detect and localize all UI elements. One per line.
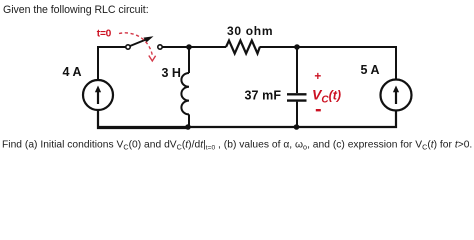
svg-text:t=0: t=0 xyxy=(97,29,112,40)
inductor L1 wire top xyxy=(188,46,190,73)
current source I1 4A circle xyxy=(83,80,113,110)
svg-text:30 ohm: 30 ohm xyxy=(227,24,273,38)
wire: bottom left corner vertical xyxy=(98,126,189,128)
svg-text:5 A: 5 A xyxy=(361,63,380,77)
wire: bottom right section xyxy=(189,110,397,127)
svg-text:37 mF: 37 mF xyxy=(245,89,282,103)
switch motion arrowhead (red open V) xyxy=(149,56,156,62)
current source I2 5A circle xyxy=(381,80,412,111)
resistor R1 30 ohm zigzag xyxy=(226,41,260,54)
node junction dot (bottom of inductor) xyxy=(185,124,191,130)
inductor L1 coil xyxy=(181,73,189,114)
wire: resistor right to top-right corner and down xyxy=(260,47,397,80)
current source I2 arrow xyxy=(395,90,397,104)
wire: left vertical top (source to top wire) xyxy=(97,46,99,80)
label - polarity xyxy=(316,109,321,111)
svg-text:Find (a) Initial conditions VC: Find (a) Initial conditions VC(0) and dV… xyxy=(2,140,472,152)
capacitor C1 bottom plate xyxy=(287,99,307,101)
capacitor C1 wire top xyxy=(296,46,298,93)
switch left contact xyxy=(126,45,130,49)
svg-text:3 H: 3 H xyxy=(162,66,181,80)
wire: left vertical bottom (source to bottom wire) xyxy=(98,110,189,128)
switch right contact xyxy=(158,45,162,49)
svg-text:VC(t): VC(t) xyxy=(312,87,341,106)
node A junction dot (top of inductor) xyxy=(186,44,192,50)
wire: top left horizontal from left branch to switch left contact xyxy=(98,46,126,48)
current source I1 arrow xyxy=(97,90,99,104)
switch blade xyxy=(130,40,146,47)
switch blade arrowhead xyxy=(144,36,154,42)
wire: switch right contact to resistor xyxy=(162,46,226,48)
svg-text:+: + xyxy=(314,69,321,83)
svg-text:4 A: 4 A xyxy=(63,65,82,79)
switch motion dashed arc xyxy=(119,33,153,56)
node junction dot (top of capacitor) xyxy=(294,44,300,50)
inductor L1 wire bottom xyxy=(188,114,190,128)
capacitor C1 wire bottom xyxy=(296,102,298,128)
node junction dot (bottom of capacitor) xyxy=(294,124,300,130)
capacitor C1 top plate xyxy=(287,93,307,95)
svg-text:Given the following RLC circui: Given the following RLC circuit: xyxy=(3,4,149,16)
